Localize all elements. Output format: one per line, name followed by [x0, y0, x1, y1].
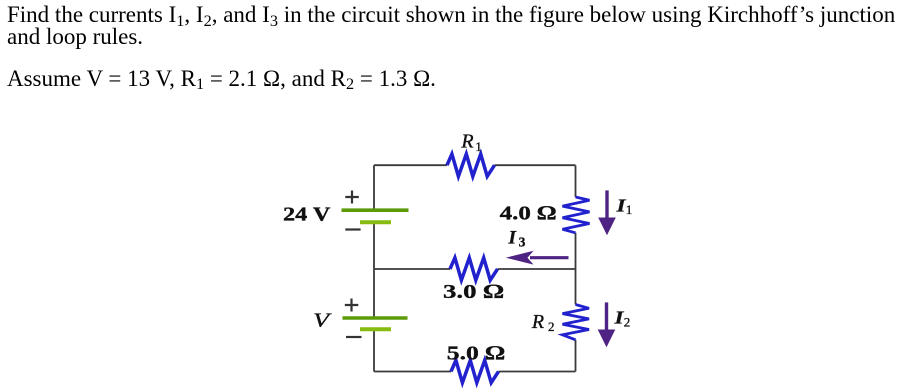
svg-text:3.0 Ω: 3.0 Ω: [443, 281, 504, 303]
svg-text:V: V: [313, 310, 333, 332]
svg-text:R: R: [531, 311, 544, 333]
svg-text:R: R: [460, 131, 473, 153]
svg-text:5.0 Ω: 5.0 Ω: [447, 342, 505, 364]
svg-text:2: 2: [548, 319, 555, 334]
svg-text:3: 3: [519, 235, 526, 250]
svg-text:I: I: [508, 228, 517, 249]
svg-text:1: 1: [475, 139, 482, 154]
svg-text:4.0 Ω: 4.0 Ω: [500, 202, 557, 224]
svg-text:1: 1: [626, 202, 633, 217]
svg-text:24 V: 24 V: [283, 204, 331, 226]
svg-text:2: 2: [624, 314, 631, 329]
